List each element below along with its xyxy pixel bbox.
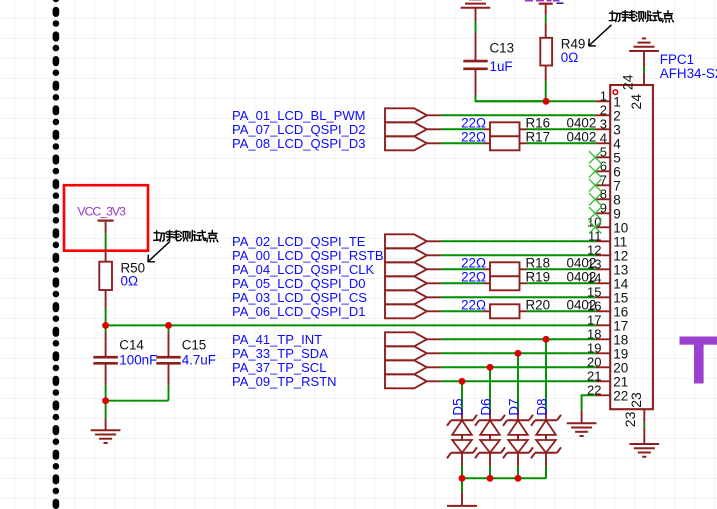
svg-text:3: 3 (600, 117, 607, 132)
svg-text:23: 23 (628, 392, 644, 408)
svg-text:18: 18 (587, 327, 601, 342)
svg-text:PA_04_LCD_QSPI_CLK: PA_04_LCD_QSPI_CLK (232, 262, 374, 277)
svg-text:1: 1 (613, 94, 621, 109)
svg-text:D6: D6 (479, 398, 494, 415)
svg-text:17: 17 (587, 313, 601, 328)
svg-text:22: 22 (613, 388, 628, 403)
svg-text:8: 8 (613, 192, 621, 207)
svg-text:C13: C13 (490, 40, 515, 55)
svg-text:20: 20 (587, 355, 601, 370)
svg-text:D8: D8 (535, 398, 550, 415)
svg-text:R17: R17 (526, 129, 551, 144)
svg-text:1: 1 (600, 89, 607, 104)
svg-text:13: 13 (613, 262, 628, 277)
svg-text:PA_03_LCD_QSPI_CS: PA_03_LCD_QSPI_CS (232, 290, 367, 305)
svg-text:R16: R16 (526, 115, 551, 130)
svg-text:PA_05_LCD_QSPI_D0: PA_05_LCD_QSPI_D0 (232, 276, 365, 291)
svg-text:0Ω: 0Ω (561, 50, 578, 65)
svg-text:PA_07_LCD_QSPI_D2: PA_07_LCD_QSPI_D2 (232, 122, 365, 137)
svg-text:VCC_3V3: VCC_3V3 (77, 204, 126, 218)
svg-text:6: 6 (613, 164, 621, 179)
svg-text:12: 12 (587, 243, 601, 258)
svg-text:AFH34-S24: AFH34-S24 (660, 66, 717, 81)
svg-text:11: 11 (613, 234, 627, 249)
svg-text:10: 10 (613, 220, 628, 235)
svg-text:R18: R18 (526, 255, 551, 270)
svg-text:4.7uF: 4.7uF (182, 353, 216, 368)
svg-text:3: 3 (613, 122, 621, 137)
svg-text:24: 24 (619, 74, 635, 90)
svg-text:PA_01_LCD_BL_PWM: PA_01_LCD_BL_PWM (232, 108, 365, 123)
svg-text:17: 17 (613, 318, 628, 333)
svg-text:PA_08_LCD_QSPI_D3: PA_08_LCD_QSPI_D3 (232, 136, 365, 151)
svg-text:21: 21 (587, 369, 601, 384)
svg-text:D7: D7 (507, 398, 522, 415)
svg-text:13: 13 (587, 257, 601, 272)
svg-text:PA_09_TP_RSTN: PA_09_TP_RSTN (232, 374, 337, 389)
svg-text:15: 15 (613, 290, 628, 305)
svg-text:16: 16 (587, 299, 601, 314)
svg-text:24: 24 (628, 94, 644, 110)
svg-text:R20: R20 (526, 297, 551, 312)
svg-text:4: 4 (613, 136, 621, 151)
svg-text:22Ω: 22Ω (461, 269, 486, 284)
svg-text:21: 21 (613, 374, 628, 389)
svg-text:22Ω: 22Ω (461, 297, 486, 312)
svg-text:20: 20 (613, 360, 628, 375)
svg-text:PA_00_LCD_QSPI_RSTB: PA_00_LCD_QSPI_RSTB (232, 248, 384, 263)
svg-text:16: 16 (613, 304, 628, 319)
svg-text:PA_41_TP_INT: PA_41_TP_INT (232, 332, 322, 347)
svg-text:C15: C15 (182, 337, 207, 352)
svg-text:23: 23 (622, 411, 638, 427)
svg-text:14: 14 (613, 276, 629, 291)
svg-text:2: 2 (600, 103, 607, 118)
svg-text:18: 18 (613, 332, 628, 347)
svg-text:PA_02_LCD_QSPI_TE: PA_02_LCD_QSPI_TE (232, 234, 366, 249)
svg-text:22Ω: 22Ω (461, 255, 486, 270)
svg-text:D5: D5 (451, 398, 466, 415)
svg-text:PA_37_TP_SCL: PA_37_TP_SCL (232, 360, 326, 375)
svg-text:5: 5 (613, 150, 621, 165)
svg-text:4: 4 (600, 131, 607, 146)
svg-text:PA_33_TP_SDA: PA_33_TP_SDA (232, 346, 328, 361)
svg-text:100nF: 100nF (119, 353, 157, 368)
svg-text:7: 7 (613, 178, 621, 193)
svg-text:22Ω: 22Ω (461, 129, 486, 144)
svg-text:12: 12 (613, 248, 628, 263)
svg-text:0402: 0402 (567, 129, 597, 144)
svg-text:22: 22 (587, 383, 601, 398)
svg-text:0Ω: 0Ω (121, 274, 138, 289)
svg-text:14: 14 (587, 271, 601, 286)
svg-text:19: 19 (587, 341, 601, 356)
svg-text:19: 19 (613, 346, 628, 361)
svg-text:15: 15 (587, 285, 601, 300)
svg-text:C14: C14 (119, 337, 144, 352)
svg-text:1uF: 1uF (490, 59, 513, 74)
svg-text:9: 9 (613, 206, 621, 221)
svg-text:22Ω: 22Ω (461, 115, 486, 130)
svg-text:R19: R19 (526, 269, 551, 284)
svg-text:0402: 0402 (567, 115, 597, 130)
svg-text:2: 2 (613, 108, 621, 123)
svg-text:PA_06_LCD_QSPI_D1: PA_06_LCD_QSPI_D1 (232, 304, 365, 319)
